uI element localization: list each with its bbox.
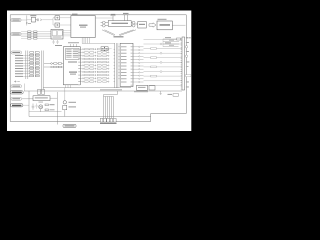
J8 pin labels [186, 37, 192, 87]
right wire row 5 [133, 59, 144, 60]
wire VBUS row [163, 38, 176, 40]
U3 bottom stubs [66, 85, 71, 88]
wire rail to Y1 [27, 19, 32, 21]
inline net label LB4 [151, 75, 157, 77]
white schematic page [7, 11, 191, 132]
long wire row 11 [144, 84, 183, 86]
U1 bottom pins [82, 38, 89, 44]
U3 right pin row 7 [80, 68, 115, 69]
net name tag2 [165, 41, 171, 44]
J1 label text [12, 20, 19, 21]
bus rails right going down [42, 51, 44, 92]
U3 top pin labels [68, 41, 79, 44]
node circle N3 [160, 62, 162, 64]
wire D2 to U1 [60, 24, 71, 26]
title text [65, 125, 75, 126]
right wire row 1 [133, 46, 144, 47]
connector J5 [10, 91, 23, 94]
node rail [26, 15, 28, 25]
diode D2 [55, 23, 60, 27]
U2 inner block A [52, 31, 57, 36]
U3 right pin row 11 [80, 81, 115, 82]
J2 label text [12, 34, 19, 35]
circle node right C [185, 46, 187, 48]
bus arrow [149, 23, 156, 27]
diode glyphs [14, 81, 20, 83]
right edge note text [168, 94, 173, 95]
U3 right pin row 1 [80, 49, 115, 50]
U3 right pin row 9 [80, 74, 115, 75]
long wire row 2 [144, 43, 183, 45]
right wire row 12 [133, 81, 144, 82]
right wire row 2 [133, 49, 144, 50]
U3 left input row A [44, 63, 63, 65]
bottom rail [29, 116, 151, 118]
+5V text [111, 14, 116, 15]
bus ribbon chevron [102, 30, 136, 36]
U6 text [160, 24, 171, 26]
long wire row 4 [144, 52, 183, 54]
RB1 labels [100, 123, 117, 124]
U2 out wires [63, 31, 71, 36]
node right out [131, 21, 137, 27]
wire row ID [163, 46, 179, 48]
wire J1 to Y1 [21, 19, 27, 21]
resistor grid RN3 [30, 52, 40, 77]
wire drop from rail [104, 91, 118, 95]
long wire row 9 [144, 75, 183, 77]
J3 label text [12, 52, 20, 53]
schematic border frame (stepped bottom-right) [10, 15, 186, 122]
horizontal rail lower [24, 90, 182, 92]
wire bus J2 to U2 [21, 32, 51, 39]
J3 net labels column [15, 55, 23, 77]
rail stub w tick [160, 91, 162, 95]
regulator VR1 [33, 96, 50, 101]
Q2 body box [63, 105, 67, 110]
Q1 leads [39, 106, 42, 112]
pin number text strip [100, 89, 122, 90]
cap C6 [36, 104, 38, 109]
grid wires to bus [23, 56, 30, 77]
pin rail [82, 42, 115, 44]
capacitor C3 [57, 40, 59, 44]
U3 part name [69, 72, 77, 73]
title label plate [63, 124, 76, 127]
C value text [55, 45, 62, 46]
power flag VCC [123, 15, 130, 21]
U2 inner block B [58, 31, 63, 36]
small parts right [45, 104, 49, 111]
U3 top pins [71, 44, 77, 47]
J7 label text [12, 105, 21, 107]
U4 pin name rows [121, 46, 127, 82]
net name tag3 [169, 39, 174, 42]
wire U6 to frame [172, 24, 185, 26]
U1 text line 2 [80, 27, 86, 28]
arrow node [40, 19, 42, 21]
right wire row 10 [133, 75, 144, 76]
U3 right pin row 6 [80, 65, 115, 66]
part labels2 [50, 109, 55, 110]
U3 left input row B [44, 66, 63, 68]
inline net label LB1 [151, 48, 157, 50]
U3 sub label [68, 62, 77, 63]
circle node right D [185, 55, 187, 57]
connector J6 [11, 97, 22, 100]
U1 part number text [79, 25, 88, 26]
battery sym right top [177, 38, 181, 40]
inline net label LB3 [151, 66, 157, 68]
row bus vertical [162, 39, 164, 47]
connector J4 [11, 85, 22, 88]
B4 under labels [134, 90, 148, 93]
crystal Y1 [31, 17, 35, 22]
node circle N1 [160, 43, 162, 45]
U4 left stubs [118, 47, 120, 79]
wire to D1/D2 [42, 19, 53, 21]
right edge note box [173, 94, 179, 97]
bus bundle down [104, 95, 114, 119]
node left in [101, 21, 109, 27]
U3 right pin row 4 [80, 58, 115, 59]
small boxes R block [38, 90, 45, 95]
header J8 strip [182, 37, 185, 90]
IC U1 [71, 16, 95, 38]
U3 right pin row 2 [80, 52, 115, 53]
buffer U5 [108, 21, 131, 27]
wire row DM [163, 41, 179, 43]
Q2 lead down [64, 110, 66, 117]
right wire row 8 [133, 69, 144, 70]
FL1 text [139, 24, 145, 25]
U2 text rows [53, 36, 62, 39]
capacitor C2 [53, 40, 55, 44]
right wire row 7 [133, 65, 144, 66]
connector J7 [11, 104, 23, 107]
junction stub [53, 18, 55, 25]
inline net label LB2 [151, 57, 157, 59]
U5 text [112, 23, 129, 24]
J4 label text [12, 86, 20, 87]
wire row DP [163, 43, 179, 45]
node circle N2 [160, 52, 162, 54]
B4 text [138, 86, 146, 89]
Q2 label2 [69, 106, 77, 107]
long wire row 3 [144, 48, 183, 50]
wire J6 to VR1 [22, 98, 33, 100]
U3 part name line2 [70, 74, 76, 75]
VR1 text [35, 97, 48, 98]
X out wire [108, 48, 112, 50]
right wire row 4 [133, 56, 144, 57]
U3 right pin row 5 [80, 61, 115, 62]
transistor Q1 [39, 105, 43, 109]
small box X1 [101, 47, 104, 51]
U3 pin numbers [78, 49, 80, 85]
X2 text [105, 47, 107, 50]
net name tag4 [169, 44, 174, 47]
right wire row 6 [133, 62, 144, 63]
U3 right pin row 3 [80, 55, 115, 56]
X1 text [102, 47, 104, 50]
resistor row RB1 [100, 118, 116, 122]
wire U1 right to power flag [95, 17, 113, 19]
IC U2 [51, 29, 63, 39]
filter FL1 [138, 22, 147, 29]
diode D1 [55, 16, 60, 20]
long wire row 5 [144, 57, 183, 59]
black scan background [0, 0, 200, 141]
VCC text [123, 13, 129, 14]
Q2 feed wire [64, 88, 66, 101]
Q1 value [39, 101, 44, 104]
vertical rail left [28, 91, 30, 117]
connector J1 [11, 19, 21, 22]
transistor Q2 [63, 101, 66, 104]
Q2 labels [69, 102, 77, 103]
wire VR1 out [50, 97, 57, 99]
bus rails U4 left [115, 43, 118, 88]
U3 pin table [66, 49, 80, 60]
connector J2 [11, 33, 21, 36]
U3 right pin row 8 [80, 71, 115, 72]
B4b box [149, 86, 155, 90]
IC U6 [157, 21, 172, 30]
bus rails left [26, 51, 28, 80]
right wire row 3 [133, 53, 144, 54]
power flag +5V [111, 16, 116, 21]
part labels [50, 104, 55, 105]
left bus drop [23, 84, 25, 92]
cap C5 [32, 104, 35, 110]
resistor pack RN2 [34, 31, 38, 39]
J8 pin ticks [181, 39, 182, 90]
small box X2 [105, 47, 108, 51]
Y1 value label [30, 15, 36, 16]
net name tag [165, 36, 171, 39]
branch rail [29, 111, 62, 113]
horizontal rail upper [43, 87, 131, 89]
capacitor C1 [36, 19, 39, 22]
J5 label text [12, 92, 22, 94]
U3 right pin row 10 [80, 78, 115, 79]
connector J3 [11, 51, 22, 54]
long wire row 1 [144, 39, 183, 41]
vertical feed [56, 92, 58, 125]
resistor pack RN1 [28, 31, 32, 39]
right wire row 11 [133, 78, 144, 79]
long wire row 8 [144, 71, 183, 73]
long wire row 6 [144, 61, 183, 63]
U1 reference label [72, 14, 78, 15]
chevron label [114, 36, 124, 37]
right wire row 9 [133, 72, 144, 73]
C0 value [28, 22, 31, 25]
node circle N4 [160, 71, 162, 73]
capacitor C0 [26, 23, 28, 24]
wire J7 to rail [23, 104, 29, 106]
U6 reference label [158, 19, 167, 20]
long wire row 7 [144, 66, 183, 68]
IC U3 main [63, 47, 80, 85]
pin table text [66, 50, 78, 58]
IC U4 [120, 43, 133, 86]
J6 label text [12, 98, 20, 99]
long wire row 10 [144, 80, 183, 82]
bundle top joint [104, 96, 114, 98]
oscillator box B4 [137, 85, 148, 90]
U4 pin numbers [131, 46, 133, 85]
wire D1 to U1 [60, 17, 71, 19]
